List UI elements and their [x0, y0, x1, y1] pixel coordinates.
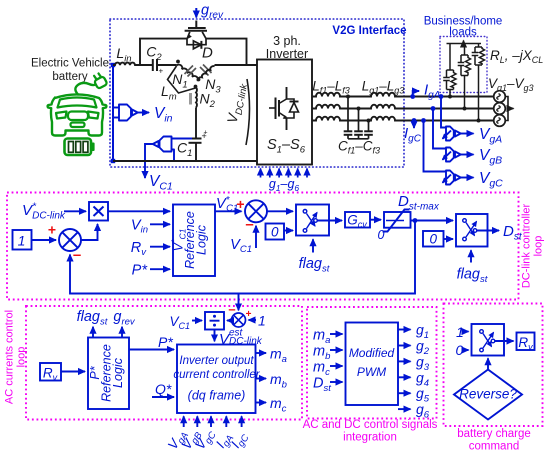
- EV battery icon: [65, 139, 95, 156]
- svg-text:(dq frame): (dq frame): [188, 389, 246, 403]
- wire sw1 to Gcv: [318, 220, 343, 222]
- output mb: [256, 378, 267, 380]
- wire sum2 to switch1: [267, 210, 293, 212]
- flag_st output arrow: [92, 327, 94, 338]
- sensor Vin (transducer): [113, 105, 138, 121]
- core marks left: [185, 66, 197, 77]
- V2G interface dashed boundary box: [110, 19, 404, 167]
- wire Lin to C2: [135, 64, 153, 66]
- svg-text:IgC: IgC: [404, 125, 422, 145]
- svg-text:+: +: [236, 196, 244, 212]
- switch block sw2: [456, 214, 488, 247]
- svg-text:Vg1–Vg3: Vg1–Vg3: [488, 76, 534, 93]
- node battery+: [111, 63, 115, 67]
- svg-text:battery: battery: [52, 71, 87, 83]
- svg-text:1: 1: [18, 233, 26, 249]
- grev output arrow: [121, 327, 123, 338]
- output to Rv: [495, 340, 514, 342]
- svg-text:N2: N2: [200, 91, 216, 111]
- svg-text:g1–g6: g1–g6: [269, 177, 300, 193]
- svg-text:grev: grev: [201, 3, 224, 22]
- AC source Vg3: [494, 115, 506, 127]
- svg-text:VDC-link: VDC-link: [224, 81, 250, 125]
- svg-text:Dst-max: Dst-max: [398, 193, 440, 213]
- load branch 2 (RC): [458, 44, 471, 109]
- phase line B: [312, 105, 494, 109]
- capacitor C1: [189, 138, 202, 140]
- svg-text:battery charge: battery charge: [457, 428, 531, 440]
- sensor VC1 (transducer): [153, 137, 192, 162]
- sensor VgC tap wire: [421, 118, 426, 123]
- current sense IgA: [410, 94, 415, 99]
- svg-text:+: +: [246, 309, 252, 320]
- svg-text:Rv: Rv: [43, 366, 58, 383]
- block VC1 reference logic: [173, 205, 215, 277]
- loads top bus with arrow: [447, 43, 482, 45]
- svg-text:Lg1–Lg3: Lg1–Lg3: [362, 79, 405, 96]
- node dots load taps: [448, 95, 452, 99]
- svg-text:–: –: [245, 216, 253, 233]
- svg-text:Cf1–Cf3: Cf1–Cf3: [338, 139, 380, 156]
- node battery-: [111, 159, 115, 163]
- node dots filter taps: [346, 95, 350, 99]
- gate arrows g1-g6: [261, 169, 308, 178]
- block zero (st): [266, 224, 285, 240]
- wire saturation to switch2: [411, 220, 454, 222]
- wire Rv to P* reference logic: [61, 371, 85, 373]
- inverter box U1: [257, 60, 312, 165]
- svg-text:Electric Vehicle: Electric Vehicle: [31, 58, 109, 70]
- transformer winding N1: [177, 65, 198, 81]
- saturation block Dst-max: [384, 212, 411, 228]
- svg-text:VC1: VC1: [169, 314, 190, 331]
- svg-text:Lf1–Lf3: Lf1–Lf3: [312, 79, 350, 96]
- svg-text:C2: C2: [146, 44, 162, 64]
- svg-text:Gcv: Gcv: [347, 213, 367, 230]
- svg-text:1: 1: [456, 324, 464, 340]
- EV car icon: [48, 83, 107, 136]
- phase line C: [312, 117, 494, 121]
- svg-text:ma: ma: [270, 346, 287, 366]
- summing junction sum3: [232, 313, 246, 327]
- svg-text:V*DC-link: V*DC-link: [22, 201, 66, 222]
- EV charging plug: [92, 72, 108, 89]
- svg-text:command: command: [469, 441, 520, 453]
- multiplier block: [89, 202, 108, 221]
- svg-text:VgB: VgB: [479, 147, 502, 167]
- wire sum1 to multiplier: [81, 224, 98, 240]
- svg-text:IgA: IgA: [213, 430, 236, 453]
- load branch 3 (RC): [472, 44, 485, 121]
- sensor VgC: [443, 171, 461, 185]
- wire 1 to sum1: [32, 239, 57, 241]
- svg-text:integration: integration: [343, 432, 397, 444]
- current sense IgC: [412, 118, 417, 123]
- svg-text:–: –: [73, 247, 81, 264]
- svg-text:Vin: Vin: [154, 105, 173, 125]
- wire Gcv to saturation: [370, 219, 381, 221]
- IGBT symbol inside inverter: [269, 87, 299, 130]
- transformer winding N2: [195, 88, 198, 108]
- svg-text:Q*: Q*: [155, 381, 172, 397]
- block P* reference logic: [88, 338, 129, 410]
- svg-text:V2G Interface: V2G Interface: [332, 25, 406, 37]
- wire C2 to transformer: [157, 64, 177, 66]
- block Gcv: [345, 212, 370, 228]
- switch block sw1: [296, 205, 329, 236]
- transistor (MOSFET) with gate: [185, 21, 207, 39]
- negative rail wire: [113, 160, 257, 162]
- load branch 1 (RC): [443, 44, 456, 97]
- wire sum3 to divider: [227, 320, 232, 322]
- output Dst: [477, 230, 499, 232]
- svg-text:P*: P*: [132, 263, 149, 279]
- wire reference logic to sum2 / V*C1 label: [215, 210, 242, 212]
- sensor VgA tap wire: [439, 94, 444, 99]
- inductor Lin: [113, 63, 140, 65]
- block constant 1: [13, 230, 32, 250]
- svg-text:0: 0: [456, 342, 464, 358]
- capacitor C2: [152, 59, 154, 71]
- svg-text:V*C1ReferenceLogic: V*C1ReferenceLogic: [170, 211, 209, 269]
- svg-text:1: 1: [258, 313, 266, 329]
- output mc: [256, 402, 267, 404]
- sensor VgB tap wire: [431, 106, 436, 111]
- sensor VgB: [443, 148, 461, 162]
- wire multiplier to VC1 reference logic: [108, 210, 170, 212]
- svg-text:P*: P*: [158, 334, 173, 350]
- svg-text:AC and DC control signals: AC and DC control signals: [303, 419, 438, 431]
- svg-text:+: +: [159, 67, 164, 76]
- svg-text:RL, –jXCL: RL, –jXCL: [490, 48, 543, 65]
- AC source Vg1: [494, 91, 506, 103]
- wire N3 to inverter: [215, 64, 258, 66]
- svg-text:3 ph.: 3 ph.: [273, 34, 301, 48]
- capacitors Cf1-Cf3: [344, 97, 373, 139]
- node dot center bottom: [194, 85, 198, 89]
- svg-text:D: D: [202, 45, 213, 62]
- wire diamond to sw3: [487, 358, 489, 369]
- estimator output wire: [214, 330, 216, 342]
- wire VC1 output: [145, 144, 153, 178]
- svg-text:Rv: Rv: [518, 335, 533, 352]
- svg-text:Lin: Lin: [116, 45, 131, 65]
- outputs g1-g6: [398, 330, 411, 410]
- DC-link controller loop dashed box: [7, 193, 519, 300]
- svg-text:Reverse?: Reverse?: [459, 387, 517, 402]
- svg-text:IgA: IgA: [424, 82, 441, 102]
- svg-text:flagst: flagst: [457, 267, 488, 286]
- wire N2 down to C1: [195, 108, 197, 139]
- svg-text:mc: mc: [270, 395, 287, 415]
- measurement inputs arrows: [184, 416, 242, 427]
- loads dashed box: [440, 37, 487, 93]
- feedback wire Dst to sum1 and estimator: [70, 221, 415, 294]
- input VC1 to sum2: [255, 226, 257, 248]
- svg-text:+: +: [204, 130, 208, 137]
- AC currents control loop dashed box: [26, 306, 302, 420]
- gate signal grev arrow: [195, 8, 197, 18]
- battery charge command dashed box: [444, 304, 543, 427]
- block Rv: [40, 363, 61, 381]
- wire 0 to switch1: [284, 230, 293, 232]
- block inverter output current controller: [177, 345, 256, 414]
- svg-text:0: 0: [271, 225, 279, 240]
- svg-text:Inverter: Inverter: [266, 47, 308, 61]
- core bar N2: [189, 93, 192, 105]
- phase line A: [312, 93, 494, 97]
- svg-text:V*C1: V*C1: [216, 195, 238, 214]
- wire Dst into sum3: [238, 294, 240, 311]
- svg-text:IgC: IgC: [228, 429, 252, 452]
- svg-text:AC currents controlloop: AC currents controlloop: [4, 310, 28, 404]
- input 1 to sum3: [249, 319, 257, 321]
- svg-text:VgA: VgA: [479, 126, 502, 146]
- summing junction sum1: [59, 229, 81, 251]
- svg-text:DC-link controllerloop: DC-link controllerloop: [521, 203, 545, 288]
- node dot center top: [197, 78, 201, 82]
- wire V*DC-link to multiplier: [64, 210, 86, 212]
- input Q*: [152, 396, 174, 398]
- svg-text:PWM: PWM: [357, 365, 386, 379]
- svg-text:Inverter output: Inverter output: [179, 355, 254, 367]
- output ma: [256, 352, 267, 354]
- svg-text:Modified: Modified: [349, 346, 395, 360]
- svg-text:+: +: [48, 222, 56, 238]
- svg-text:Vin: Vin: [131, 218, 148, 236]
- svg-text:0: 0: [378, 228, 385, 242]
- flag_st arrow into sw2: [470, 250, 472, 262]
- svg-text:mb: mb: [270, 371, 287, 391]
- diode D (anti-parallel): [187, 39, 206, 49]
- wire Vin output: [138, 112, 149, 114]
- VDC-link brace arc: [246, 79, 250, 145]
- flag_st arrow into sw1: [312, 239, 314, 252]
- summing junction sum2: [245, 200, 267, 222]
- svg-text:VC1: VC1: [149, 173, 173, 193]
- AC source Vg2: [494, 103, 506, 115]
- svg-text:P*ReferenceLogic: P*ReferenceLogic: [88, 344, 125, 402]
- sensor VgA: [443, 127, 461, 141]
- switch block sw3: [472, 324, 505, 356]
- battery DC bus (blue): [112, 65, 114, 161]
- source return bracket with arrow: [505, 97, 508, 121]
- block Modified PWM: [346, 323, 399, 406]
- svg-text:flagst: flagst: [299, 256, 330, 275]
- wire bypass branch: [140, 39, 247, 65]
- wire 0 to switch2: [444, 238, 454, 240]
- svg-text:VC1: VC1: [230, 237, 252, 255]
- svg-text:Dst: Dst: [313, 376, 331, 395]
- transformer winding N3: [198, 66, 215, 81]
- core marks right: [200, 65, 212, 76]
- svg-text:current controller: current controller: [173, 369, 260, 381]
- node Dst feedback tap: [413, 218, 418, 223]
- svg-text:0: 0: [429, 232, 437, 247]
- divider block: [205, 312, 224, 330]
- svg-text:flagst: flagst: [77, 309, 108, 328]
- decision diamond Reverse?: [454, 370, 522, 420]
- block zero 2: [423, 231, 444, 247]
- node dot N1 top: [176, 60, 180, 64]
- AC and DC signals dashed box: [307, 307, 437, 419]
- block Rv out: [517, 333, 535, 351]
- magnetizing inductance Lm loop: [168, 66, 196, 93]
- svg-text:grev: grev: [113, 309, 136, 328]
- svg-text:VgC: VgC: [479, 170, 503, 190]
- svg-text:Rv: Rv: [131, 240, 147, 258]
- wire P* to controller: [129, 349, 174, 351]
